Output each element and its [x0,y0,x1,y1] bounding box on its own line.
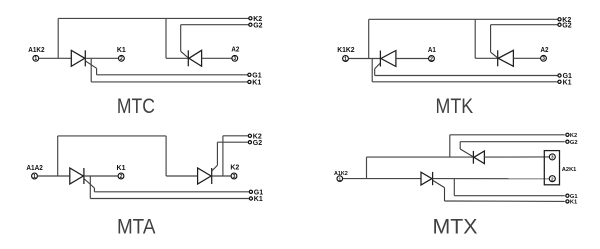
thyristor SCR2 cathode bar [187,50,189,66]
terminal 1 circle [337,176,343,182]
wire SCR1 cathode to box terminal [433,178,550,180]
SCR1 gate diagonal [433,180,445,187]
wire G1 [375,75,558,77]
terminal box A2K1 [544,151,559,185]
svg-text:K2: K2 [253,133,262,140]
G1 terminal circle [558,74,561,77]
terminal 1 circle [343,56,349,62]
SCR2 gate diagonal [460,149,473,157]
svg-text:A1: A1 [428,47,436,54]
wire K1 [445,200,565,202]
wire G2 [491,24,558,26]
thyristor SCR2 cathode bar [211,168,213,184]
wire K1 bus [91,81,248,83]
wire K2 [223,135,248,137]
wire K2 tap vertical [449,135,451,157]
terminal 2 circle [429,56,435,62]
wire tap vertical to top bus [57,136,59,176]
wire SCR1 cathode to terminal 2 [84,175,118,177]
wire K1 tap vertical [90,58,92,82]
svg-text:2: 2 [120,174,123,180]
wire G1 [94,191,249,193]
wire top bus to K2 [58,17,249,19]
thyristor SCR2 triangle [189,50,202,66]
wire G1 [454,195,564,197]
wire K1 bus [372,81,557,83]
wire K2 tap vertical [222,136,224,176]
svg-text:2: 2 [430,56,433,62]
svg-text:1: 1 [33,174,36,180]
wire SCR2 cathode to terminal 3 [212,175,232,177]
thyristor SCR1 triangle [71,50,85,66]
svg-text:K1: K1 [252,79,261,86]
box terminal 2 circle [549,176,555,182]
thyristor SCR2 cathode bar [472,151,474,164]
terminal 1 circle [32,173,38,179]
G2 terminal circle [248,141,251,144]
thyristor SCR2 cathode bar [497,50,499,66]
SCR2 gate diagonal [212,165,218,171]
SCR2 gate vertical [459,142,461,149]
svg-text:A2: A2 [231,47,239,54]
wire branch vertical to SCR2 cathode [165,18,167,58]
svg-text:A1A2: A1A2 [26,165,43,172]
thyristor SCR1 cathode bar [379,51,381,67]
wire SCR2 anode to terminal 3 [202,57,232,59]
wire top bus [58,135,166,137]
svg-text:MTC: MTC [117,94,155,118]
wire K1 tap vertical [371,59,373,82]
svg-text:K1: K1 [563,79,572,86]
wire K2 [450,134,565,136]
svg-text:K1: K1 [254,196,263,203]
svg-text:A2K1: A2K1 [562,167,577,173]
svg-text:A1K2: A1K2 [28,47,44,54]
thyristor SCR1 triangle [381,51,396,67]
wire G1 [97,74,248,76]
K2 terminal circle [566,133,569,136]
wire terminal1 to SCR1 anode [343,178,421,180]
wire to SCR2 cathode bar [475,57,498,59]
K2 terminal circle [249,17,252,20]
svg-text:MTK: MTK [436,94,474,118]
svg-text:3: 3 [542,56,545,62]
svg-text:K1: K1 [570,200,577,206]
svg-text:2: 2 [551,176,554,181]
wire tap vertical to top bus [368,19,370,58]
SCR1 gate vertical [93,188,95,192]
K1 terminal circle [249,197,252,200]
wire to SCR2 cathode bar [166,57,188,59]
terminal 3 circle [232,55,238,61]
box terminal 3 circle [549,154,555,160]
svg-text:G2: G2 [562,22,571,29]
svg-text:K1: K1 [117,165,126,172]
wire tap vertical up [366,157,368,179]
svg-text:K2: K2 [230,165,239,172]
wire upper branch to SCR2 cathode [367,156,474,158]
svg-text:1: 1 [344,56,347,62]
K2 terminal circle [248,134,251,137]
svg-text:K1K2: K1K2 [337,47,354,54]
G2 terminal circle [249,23,252,26]
svg-text:A2: A2 [541,47,549,54]
SCR1 gate vertical [374,69,376,76]
wire K1 bus [90,198,249,200]
svg-text:G2: G2 [570,140,578,146]
SCR2 gate vertical [216,142,218,165]
svg-text:3: 3 [233,56,236,62]
thyristor SCR2 triangle [198,168,212,184]
thyristor SCR1 triangle [421,172,432,185]
wire tap vertical to top bus [57,18,59,58]
terminal 3 circle [231,173,237,179]
wire terminal1 to SCR1 anode [38,175,70,177]
thyristor SCR2 triangle [498,50,513,66]
svg-text:G1: G1 [570,194,578,200]
svg-text:MTX: MTX [433,214,478,238]
G1 terminal circle [248,73,251,76]
svg-text:1: 1 [34,56,37,62]
G1 terminal circle [249,190,252,193]
wire to SCR2 anode [166,175,198,177]
wire terminal1 to SCR1 anode [39,57,72,59]
wire K1 tap vertical [89,176,91,199]
terminal 1 circle [33,55,39,61]
SCR1 gate vertical [444,188,446,201]
SCR2 gate vertical [180,25,182,52]
thyristor SCR1 cathode bar [432,172,434,185]
SCR1 gate diagonal [84,179,94,188]
G2 terminal circle [566,140,569,143]
thyristor SCR1 cathode bar [83,168,85,184]
wire bus down to SCR2 anode [165,136,167,176]
wire top bus to K2 [369,18,558,20]
wire SCR2 anode to terminal 3 [513,57,540,59]
svg-text:G2: G2 [253,22,262,29]
svg-text:2: 2 [120,56,123,62]
wire SCR2 anode to box terminal [484,156,549,158]
thyristor SCR2 triangle [474,151,485,164]
K1 terminal circle [248,80,251,83]
wire G2 [460,141,565,143]
terminal 2 circle [118,173,124,179]
svg-text:G1: G1 [252,72,261,79]
K2 terminal circle [558,18,561,21]
wire SCR1 cathode to terminal 2 [85,57,118,59]
thyristor SCR1 cathode bar [84,50,86,66]
wire SCR1 anode to terminal 2 [396,58,429,60]
SCR2 gate diagonal [181,51,188,57]
svg-text:K2: K2 [570,133,577,139]
svg-text:3: 3 [233,174,236,180]
SCR2 gate diagonal [491,52,498,57]
SCR1 gate vertical [96,68,98,75]
G2 terminal circle [558,23,561,26]
svg-text:3: 3 [551,155,554,160]
SCR1 gate diagonal [375,63,381,69]
wire branch vertical to SCR2 [474,19,476,58]
wire terminal1 to SCR1 cathode [349,58,381,60]
K1 terminal circle [558,80,561,83]
terminal 3 circle [541,55,547,61]
G1 terminal circle [566,194,569,197]
wire G2 [217,141,248,143]
terminal 2 circle [119,55,125,61]
SCR2 gate vertical [490,25,492,53]
svg-text:G2: G2 [253,140,262,147]
svg-text:1: 1 [339,176,342,181]
wire G1 tap vertical [453,179,455,196]
wire G2 [181,24,249,26]
SCR1 gate diagonal [85,61,96,68]
K1 terminal circle [566,200,569,203]
thyristor SCR1 triangle [70,168,84,184]
svg-text:K1: K1 [117,47,126,54]
svg-text:MTA: MTA [117,214,156,238]
